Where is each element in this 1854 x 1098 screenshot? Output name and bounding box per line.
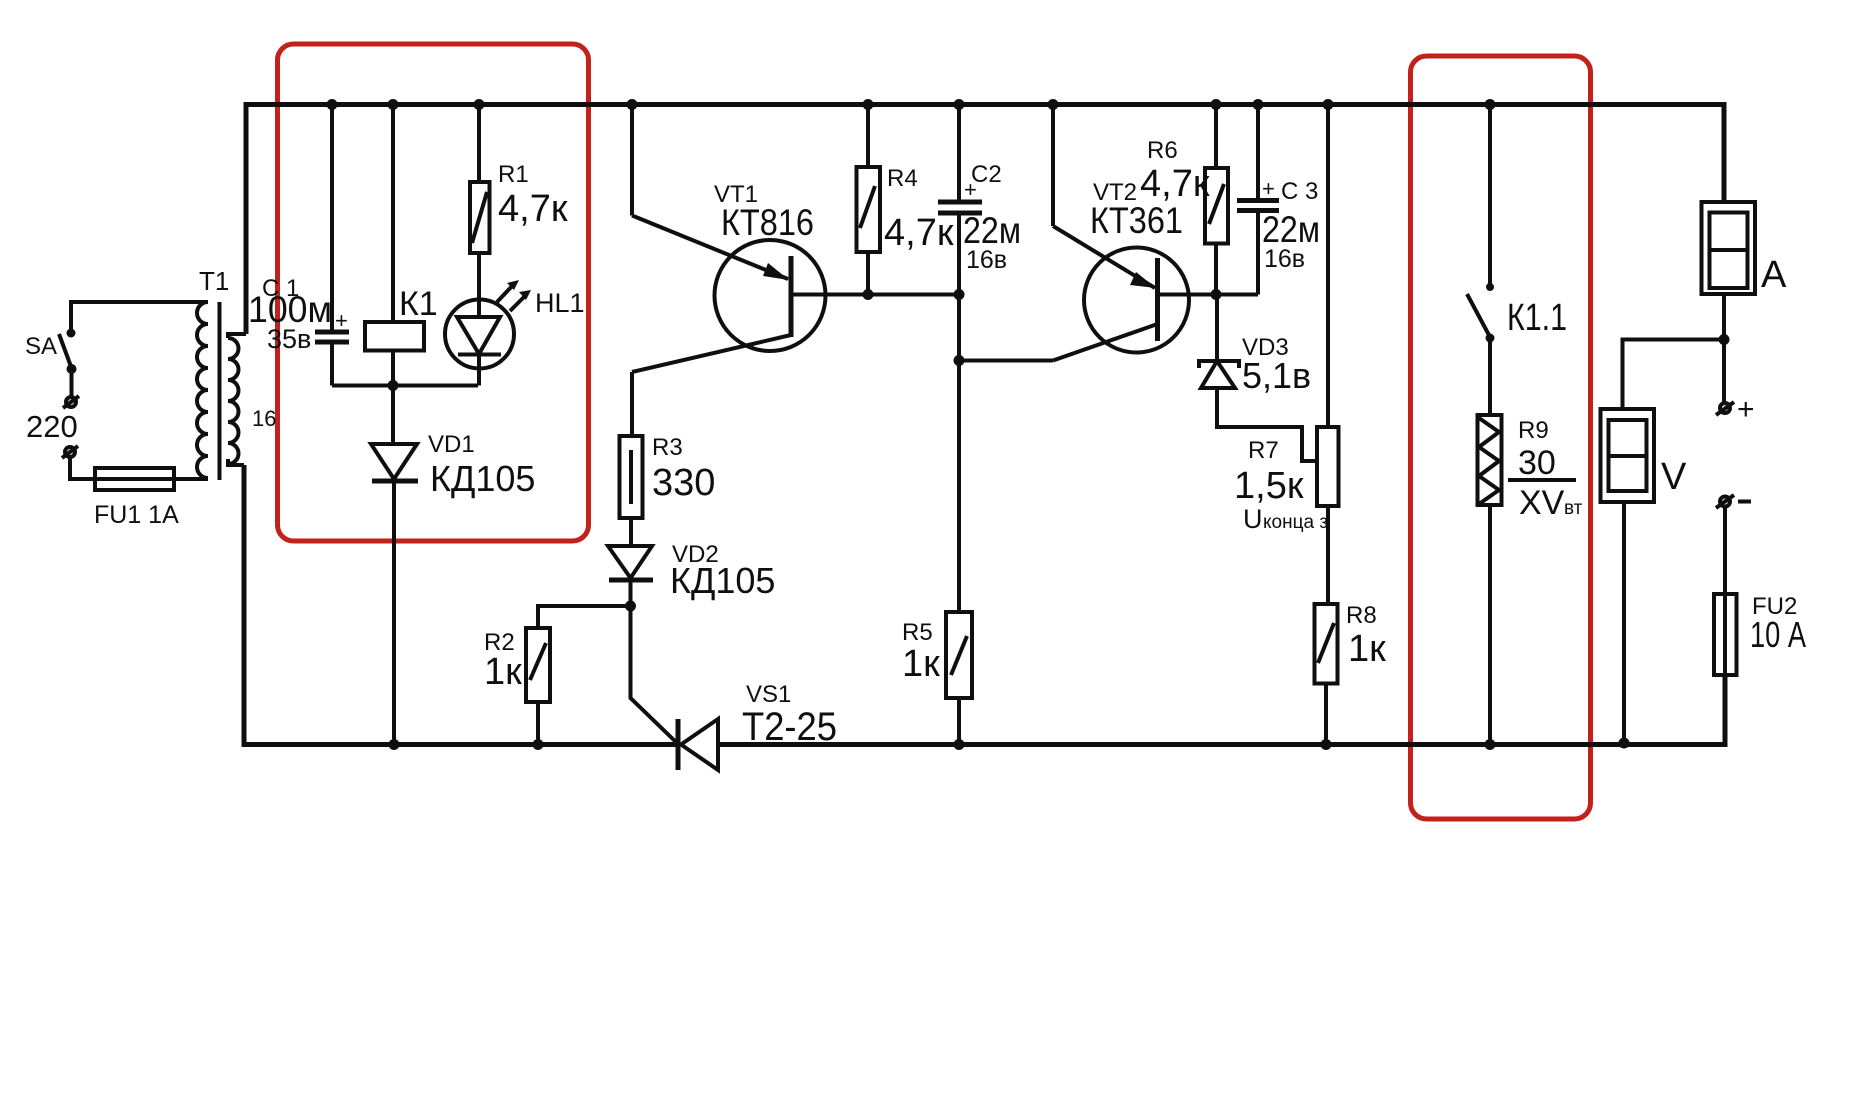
wire: VD3 to R7 wiper — [1217, 388, 1317, 461]
resistor R1 4,7k — [477, 105, 481, 183]
resistor R7 1,5k (trimmer) — [1326, 105, 1330, 428]
resistor R5 1k — [957, 361, 961, 613]
svg-text:5,1в: 5,1в — [1242, 355, 1311, 396]
relay coil K1 — [391, 105, 395, 323]
svg-text:К1: К1 — [399, 285, 438, 323]
svg-text:R4: R4 — [887, 165, 918, 192]
zener VD3 5,1v — [1215, 295, 1219, 362]
svg-text:U: U — [1243, 504, 1263, 534]
wire: VT2 base line — [1158, 293, 1259, 297]
svg-text:+: + — [1262, 176, 1275, 201]
svg-text:R9: R9 — [1518, 417, 1549, 444]
transistor VT1 KT816 — [715, 240, 826, 351]
svg-text:КД105: КД105 — [670, 560, 775, 601]
svg-text:R1: R1 — [498, 161, 529, 188]
relay contact K1.1 — [1488, 105, 1492, 285]
capacitor C1 — [330, 105, 334, 332]
resistor R9 30/XVvt — [1478, 415, 1502, 505]
switch SA — [67, 329, 76, 338]
svg-text:HL1: HL1 — [535, 288, 585, 318]
svg-text:330: 330 — [652, 462, 715, 504]
svg-text:Т2-25: Т2-25 — [742, 705, 837, 749]
svg-text:XV: XV — [1519, 484, 1565, 522]
svg-text:R5: R5 — [902, 619, 933, 646]
ammeter A — [1702, 202, 1756, 294]
node: output terminal - — [1720, 497, 1730, 507]
resistor R4 4,7k — [866, 105, 870, 168]
svg-text:1к: 1к — [484, 651, 522, 693]
svg-text:SA: SA — [25, 333, 57, 360]
svg-text:V: V — [1661, 456, 1687, 498]
wire: C1/K1/HL1 junction rail — [332, 384, 478, 388]
svg-text:4,7к: 4,7к — [884, 212, 954, 254]
wire: secondary top lead — [228, 334, 246, 338]
svg-text:16в: 16в — [966, 246, 1007, 274]
svg-text:22м: 22м — [963, 210, 1021, 251]
node: mains terminal lower — [65, 447, 75, 457]
svg-text:вт: вт — [1564, 498, 1583, 519]
svg-text:T1: T1 — [199, 266, 229, 296]
wire: top supply bus — [246, 105, 1724, 335]
highlight box 2 (K1.1 / R9 section) — [1411, 56, 1591, 819]
capacitor C3 22m 16v — [1256, 105, 1260, 201]
wire: terminal to fuse — [70, 457, 208, 479]
resistor R8 1k — [1315, 604, 1338, 684]
wire: bottom return bus (right of VS1) — [718, 675, 1725, 745]
wire: SA to terminal — [70, 369, 74, 397]
svg-text:220: 220 — [26, 409, 78, 444]
svg-text:1к: 1к — [1348, 628, 1386, 670]
svg-text:+: + — [335, 308, 348, 333]
highlight box 1 (relay/LED section) — [278, 44, 589, 541]
svg-text:VD1: VD1 — [428, 431, 475, 458]
diode VD1 KD105 — [391, 386, 395, 445]
svg-text:22м: 22м — [1262, 209, 1320, 250]
diode VD2 KD105 — [608, 546, 652, 578]
svg-text:1к: 1к — [902, 643, 940, 685]
svg-text:VS1: VS1 — [746, 681, 791, 708]
fuse FU2 10A — [1714, 594, 1737, 675]
svg-text:FU1 1A: FU1 1A — [94, 501, 179, 529]
svg-text:R7: R7 — [1248, 437, 1279, 464]
transistor VT2 KT361 — [1084, 248, 1189, 353]
node: mains terminal upper — [66, 397, 76, 407]
svg-text:КД105: КД105 — [430, 458, 535, 499]
svg-text:1,5к: 1,5к — [1234, 465, 1304, 507]
voltmeter V — [1601, 409, 1655, 502]
svg-text:4,7к: 4,7к — [1140, 163, 1210, 205]
resistor R3 330 — [630, 372, 634, 436]
thyristor VS1 T2-25 — [631, 606, 679, 744]
wire: bottom return bus (left of VS1) — [244, 465, 677, 745]
svg-text:C2: C2 — [971, 161, 1002, 188]
svg-text:30: 30 — [1518, 444, 1556, 482]
capacitor C2 22m 16v — [957, 105, 961, 203]
svg-text:35в: 35в — [267, 324, 311, 354]
svg-text:C 3: C 3 — [1281, 178, 1318, 205]
svg-text:A: A — [1761, 254, 1787, 296]
wire: primary top — [71, 302, 208, 333]
wire: VT1 base line — [791, 293, 959, 297]
wire: branch to voltmeter — [1623, 340, 1725, 410]
resistor R2 1k — [538, 606, 631, 628]
svg-text:КТ361: КТ361 — [1090, 200, 1183, 241]
svg-text:10 А: 10 А — [1750, 614, 1806, 655]
svg-text:конца з: конца з — [1263, 512, 1328, 533]
svg-text:+: + — [1737, 393, 1755, 426]
svg-text:R3: R3 — [652, 434, 683, 461]
svg-text:4,7к: 4,7к — [498, 188, 568, 230]
svg-text:КТ816: КТ816 — [721, 202, 814, 243]
svg-text:К1.1: К1.1 — [1507, 297, 1567, 339]
node: output terminal + — [1722, 340, 1726, 404]
svg-text:16: 16 — [252, 406, 276, 431]
svg-text:R6: R6 — [1147, 137, 1178, 164]
svg-text:R8: R8 — [1346, 602, 1377, 629]
svg-text:16в: 16в — [1264, 245, 1305, 273]
fuse FU1 — [95, 468, 174, 490]
resistor R6 4,7k — [1214, 105, 1218, 169]
wire: secondary bottom lead — [228, 459, 244, 465]
LED HL1 — [445, 300, 514, 369]
